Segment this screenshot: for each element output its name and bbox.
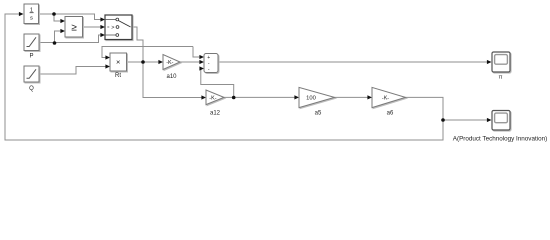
switch block [105, 15, 132, 40]
wire: Q output to product Rt input 2 [39, 67, 106, 75]
arrowhead into product Rt input 1 [105, 55, 110, 59]
arrowhead into switch input 2 [100, 25, 105, 29]
wire: integrator output to switch input 1 [39, 14, 101, 20]
junction dot integrator net [52, 12, 56, 16]
ramp block Q [24, 66, 39, 82]
svg-text:100: 100 [306, 96, 316, 102]
svg-text:P: P [29, 54, 33, 60]
svg-text:-K-: -K- [166, 60, 173, 66]
wire: to sum input 1 [193, 47, 200, 58]
arrowhead into gain a6 [367, 95, 372, 99]
svg-text:≥: ≥ [71, 22, 77, 33]
svg-text:Rt: Rt [115, 73, 121, 79]
junction dot outer loop node [441, 118, 445, 122]
ramp block P [24, 34, 39, 51]
integrator block 1/s [24, 4, 39, 24]
svg-text:a5: a5 [315, 111, 322, 117]
wire: switch output down to node [132, 27, 143, 62]
gain a10 [163, 55, 180, 70]
arrowhead into switch input 1 [100, 17, 105, 21]
junction dot a12 output node [232, 96, 236, 100]
arrowhead into scope pi [487, 60, 492, 64]
svg-text:-K-: -K- [209, 96, 216, 102]
svg-text:Q: Q [29, 86, 34, 92]
svg-text:-K-: -K- [382, 96, 389, 102]
gain a6 [372, 87, 406, 107]
arrowhead into product Rt input 2 [105, 64, 110, 68]
scope pi [492, 52, 510, 72]
svg-text:A(Product Technology Innovatio: A(Product Technology Innovation) [453, 136, 547, 143]
arrowhead into sum input 1 [199, 55, 204, 59]
scope A [492, 111, 510, 131]
product block Rt [110, 53, 127, 71]
wire: outer feedback loop from gain a6 to integrator input [5, 14, 443, 140]
gain a5 [299, 87, 335, 107]
wire: gain a10 output to sum input 2 [180, 61, 200, 63]
wire: feedback a12 node to sum input 3 [200, 69, 234, 98]
gain a12 [206, 90, 224, 105]
junction dot P net [53, 41, 57, 45]
wire: horizontal net to product Rt input 1 [102, 47, 193, 58]
arrowhead into relational operator input 1 [60, 19, 65, 23]
sum block [204, 54, 218, 73]
wire: P output to switch input 3 [39, 35, 101, 43]
svg-text:a10: a10 [166, 74, 177, 80]
junction dot Rt output node [141, 60, 145, 64]
arrowhead into relational operator input 2 [60, 29, 65, 33]
svg-text:s: s [30, 16, 33, 22]
arrowhead into sum input 2 [199, 60, 204, 64]
svg-text:a6: a6 [387, 111, 394, 117]
wire: branch node to gain a12 input [143, 62, 202, 98]
arrowhead into integrator [19, 12, 24, 16]
wire: gain a12 output to gain a5 [224, 96, 295, 98]
wire: branch to scope A [443, 119, 487, 121]
svg-text:>: > [111, 25, 114, 31]
wire: sum output to scope pi [218, 61, 487, 63]
wire: branch P to relational operator input 2 [55, 31, 61, 43]
svg-text:π: π [499, 75, 503, 81]
arrowhead into sum input 3 [199, 66, 204, 70]
wire: gain a5 output to gain a6 [335, 96, 368, 98]
relational operator block >= [65, 17, 83, 38]
arrowhead into gain a5 [294, 95, 299, 99]
wire: relational operator output to switch input 2 [83, 26, 101, 28]
wire: product Rt output to gain a10 [127, 61, 159, 63]
svg-text:×: × [116, 58, 120, 67]
svg-text:a12: a12 [210, 111, 221, 117]
wire: branch integrator to relational operator input 1 [54, 14, 61, 21]
arrowhead into scope A [487, 118, 492, 122]
arrowhead into switch input 3 [100, 33, 105, 37]
arrowhead into gain a10 [158, 60, 163, 64]
arrowhead into gain a12 [201, 95, 206, 99]
